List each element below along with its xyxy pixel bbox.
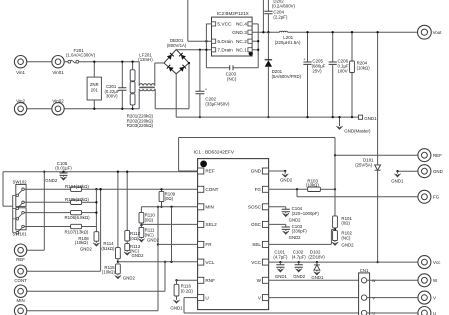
wire ZNR bottom stub xyxy=(93,100,95,109)
wire CN1 V to terminal xyxy=(367,297,418,299)
svg-text:W: W xyxy=(257,278,262,283)
svg-text:Vcc: Vcc xyxy=(433,260,441,265)
switch pole xyxy=(22,188,25,191)
wire switch row2 xyxy=(24,201,70,203)
svg-text:100V: 100V xyxy=(338,68,348,73)
IC1 pin SEL right xyxy=(262,241,268,247)
IC1 BD63242EFV xyxy=(198,159,269,310)
svg-text:Vin02: Vin02 xyxy=(52,99,64,104)
terminal Vin01 xyxy=(52,56,64,68)
svg-text:GND: GND xyxy=(433,169,443,174)
switch SW101 xyxy=(16,208,26,230)
svg-text:FG: FG xyxy=(255,187,262,192)
svg-text:U: U xyxy=(433,311,436,315)
svg-text:MIN: MIN xyxy=(17,298,25,303)
svg-text:NC.1: NC.1 xyxy=(236,48,247,54)
wire U pin route xyxy=(184,297,198,299)
svg-text:ZNR: ZNR xyxy=(90,82,99,87)
resistor R103 10k xyxy=(308,187,321,191)
svg-text:GND2: GND2 xyxy=(280,177,293,182)
node bridge AC2 corner xyxy=(188,62,190,64)
IC2 pin 5.VCC xyxy=(212,22,216,26)
wire Vin1 to Vin01 xyxy=(27,61,52,63)
IC1 pin U xyxy=(198,295,204,301)
wire SEL2 row xyxy=(141,223,197,225)
svg-text:GND2: GND2 xyxy=(45,178,58,183)
svg-text:CONT: CONT xyxy=(14,278,27,283)
resistor R106 6.8k xyxy=(71,210,82,214)
wire MIN-VCL vertical xyxy=(171,207,173,262)
svg-text:Vin01: Vin01 xyxy=(52,70,64,75)
wire REF line left drop xyxy=(2,172,4,207)
ground GND1 below R116 xyxy=(176,296,178,300)
IC1 pin SEL2 xyxy=(198,221,204,227)
wire LF201 bottom-right lead xyxy=(154,89,156,109)
resistor R102 NC xyxy=(333,231,338,241)
wire FG jog down xyxy=(296,189,298,197)
resistor R110 0ohm xyxy=(140,207,142,213)
switch pole xyxy=(22,225,25,228)
capacitor C105 xyxy=(63,172,65,173)
svg-text:GND2: GND2 xyxy=(123,275,136,280)
svg-text:R105(27kΩ): R105(27kΩ) xyxy=(65,197,89,202)
wire VCL row xyxy=(118,261,198,263)
IC1 pin SOSC right xyxy=(262,204,268,210)
terminal Vin1 xyxy=(14,56,26,68)
wire SOSC stub xyxy=(269,206,286,208)
resistor R111 NC xyxy=(140,225,142,227)
wire bridge minus to rail xyxy=(175,74,177,117)
svg-text:IC1 : BD63242EFV: IC1 : BD63242EFV xyxy=(194,150,235,156)
wire GND.3 to rail xyxy=(252,31,279,33)
wire switch row1 xyxy=(24,188,70,190)
node C202 tap on drain line xyxy=(199,49,201,51)
varistor ZNR201 xyxy=(87,77,101,100)
wire FR net upper xyxy=(157,207,159,245)
IC1 pin VCC right xyxy=(262,259,268,265)
svg-text:(800V/1A): (800V/1A) xyxy=(167,43,187,48)
capacitor C102 xyxy=(298,261,300,263)
switch pole xyxy=(22,211,25,214)
IC1 pin FG right xyxy=(262,186,268,192)
wire CONT terminal riser xyxy=(27,270,101,272)
zener D102 ZD18V xyxy=(316,261,318,263)
capacitor C202 33uF/450V xyxy=(199,50,201,92)
ground GND(Master) xyxy=(339,117,341,126)
terminal Vin02 xyxy=(52,103,64,115)
wire R114 chain riser xyxy=(117,172,119,248)
capacitor C101 xyxy=(279,261,281,263)
IC1 pin GND right xyxy=(262,168,268,174)
svg-text:VCC: VCC xyxy=(251,260,261,265)
wire FR terminal riser xyxy=(27,310,158,312)
diode D101 25V/5A xyxy=(375,165,381,170)
svg-text:GND2: GND2 xyxy=(147,237,160,242)
IC1 pin OSC right xyxy=(262,221,268,227)
svg-text:(0.01µF): (0.01µF) xyxy=(55,165,72,170)
svg-text:SEL2: SEL2 xyxy=(205,222,217,227)
svg-text:Vin2: Vin2 xyxy=(16,99,25,104)
svg-text:SOSC: SOSC xyxy=(248,205,262,210)
svg-text:V: V xyxy=(433,295,436,300)
svg-text:(51kΩ): (51kΩ) xyxy=(101,246,115,251)
svg-text:(25V/5A): (25V/5A) xyxy=(355,163,373,168)
ground GND2 below R113 xyxy=(126,251,128,252)
capacitor C204 xyxy=(267,0,269,11)
IC2 pin NC.4 xyxy=(248,22,252,26)
wire REF pin route xyxy=(179,170,198,172)
terminal GND right xyxy=(418,165,431,178)
svg-text:GND2: GND2 xyxy=(289,217,302,222)
svg-text:(330pF): (330pF) xyxy=(292,229,308,234)
svg-text:300V): 300V) xyxy=(106,93,118,98)
connector CN1 xyxy=(359,273,370,315)
svg-text:FG: FG xyxy=(433,195,440,200)
svg-text:(13mH): (13mH) xyxy=(138,57,153,62)
terminal FR left xyxy=(14,305,26,315)
IC1 pin-1 dot xyxy=(200,161,207,168)
wire REF pin line xyxy=(3,171,198,173)
wire 6.Drain feed riser xyxy=(187,0,189,41)
svg-text:GND2: GND2 xyxy=(341,242,354,247)
svg-text:GND1: GND1 xyxy=(275,274,288,279)
wire RNF stub xyxy=(177,279,198,281)
ground GND2 below R102 xyxy=(334,241,336,242)
IC2 pin GND.3 xyxy=(248,30,252,34)
svg-text:6.Drain: 6.Drain xyxy=(217,39,233,45)
wire REF vertical to divider xyxy=(334,138,336,216)
wire Vin2 to Vin02 xyxy=(27,108,52,110)
svg-text:(0.2A/600V): (0.2A/600V) xyxy=(272,4,296,9)
svg-text:(0Ω): (0Ω) xyxy=(145,217,154,222)
svg-text:GND1: GND1 xyxy=(170,306,183,311)
terminal Vcc right xyxy=(418,256,431,269)
wire bridge AC2 riser xyxy=(188,63,190,109)
resistor R107 13k xyxy=(71,224,82,228)
wire switch row4 xyxy=(24,226,70,228)
svg-text:(10kΩ): (10kΩ) xyxy=(306,183,320,188)
IC1 pin VCL xyxy=(198,259,204,265)
svg-text:SW102: SW102 xyxy=(13,180,28,185)
svg-text:(0Ω): (0Ω) xyxy=(165,196,174,201)
IC2 pin 7.Drain xyxy=(212,48,216,52)
IC1 pin W right xyxy=(262,277,268,283)
svg-text:GND(Master): GND(Master) xyxy=(344,128,371,133)
svg-text:SEL: SEL xyxy=(252,242,261,247)
wire LF201 top-right lead xyxy=(154,63,156,86)
wire secondary ground rail xyxy=(176,116,358,118)
IC1 pin RNF xyxy=(198,277,204,283)
svg-text:(10kΩ): (10kΩ) xyxy=(357,66,371,71)
bridge rectifier DB201 xyxy=(164,50,189,74)
svg-text:RNF: RNF xyxy=(205,278,215,283)
terminal U right xyxy=(418,307,431,315)
svg-text:(ZD18V): (ZD18V) xyxy=(308,254,325,259)
svg-text:(5A/600V/FRD): (5A/600V/FRD) xyxy=(272,74,302,79)
diode D202 feed riser xyxy=(262,0,264,32)
svg-text:Vin1: Vin1 xyxy=(16,70,25,75)
resistor R108 10k xyxy=(95,227,97,232)
resistor R109 0ohm xyxy=(161,189,163,191)
svg-text:MIN: MIN xyxy=(205,205,213,210)
wire GND terminal stub xyxy=(398,170,418,172)
resistor R204 10k xyxy=(351,32,353,61)
switch pole xyxy=(22,201,25,204)
wire fuse to LF201 top xyxy=(79,61,140,63)
wire Vin01 to fuse xyxy=(64,61,68,63)
IC2 pin NC.1 xyxy=(248,48,252,52)
wire switch row3 xyxy=(24,212,70,214)
capacitor C104 xyxy=(285,207,287,210)
resistor R116 0.2ohm xyxy=(176,280,178,284)
svg-text:(0Ω): (0Ω) xyxy=(130,236,139,241)
wire LF201 top-left lead xyxy=(138,62,140,86)
svg-text:GND2: GND2 xyxy=(80,247,93,252)
svg-text:(2.2µF): (2.2µF) xyxy=(273,15,288,20)
terminal MIN left xyxy=(14,285,26,297)
svg-text:FR: FR xyxy=(205,242,212,247)
inductor L201 xyxy=(280,31,288,32)
terminal Vin2 xyxy=(14,103,26,115)
wire R112 chain riser xyxy=(126,172,128,231)
switch SW102 xyxy=(16,185,26,207)
svg-text:R203(220kΩ): R203(220kΩ) xyxy=(127,123,154,128)
svg-text:(10kΩ): (10kΩ) xyxy=(102,270,116,275)
capacitor C203 (NC) xyxy=(206,67,229,69)
svg-text:7.Drain: 7.Drain xyxy=(217,48,233,54)
fuse F201 xyxy=(68,60,79,63)
resistor R115 10k xyxy=(116,264,121,274)
svg-text:Vout: Vout xyxy=(433,30,443,35)
svg-text:REF: REF xyxy=(433,153,442,158)
svg-text:(220µH/1.6A): (220µH/1.6A) xyxy=(275,40,301,45)
ground GND2 at GND pin xyxy=(284,171,286,174)
IC1 pin MIN xyxy=(198,204,204,210)
svg-text:GND.3: GND.3 xyxy=(232,30,247,36)
wire CN1 W to terminal xyxy=(367,279,418,281)
svg-text:VCL: VCL xyxy=(205,260,214,265)
wire 5.VCC stub xyxy=(206,23,211,25)
svg-text:GND2: GND2 xyxy=(289,235,302,240)
wire W pin to CN1 xyxy=(269,279,362,281)
capacitor C201 xyxy=(121,62,123,88)
terminal W right xyxy=(418,274,431,287)
ground GND1 at GND terminal xyxy=(397,171,399,173)
IC1 pin FR xyxy=(198,241,204,247)
resistor R105 27k xyxy=(71,200,82,204)
svg-text:GND1: GND1 xyxy=(364,116,377,121)
svg-text:CN1: CN1 xyxy=(360,268,369,273)
svg-text:(NC): (NC) xyxy=(227,76,237,81)
wire Vcc feed riser lower xyxy=(377,170,379,262)
svg-text:U: U xyxy=(205,295,208,300)
resistor R114 51k xyxy=(116,248,121,259)
wire Vcc feed riser xyxy=(377,32,379,165)
wire LF201 to bridge AC1 xyxy=(155,62,164,64)
svg-text:NC.2: NC.2 xyxy=(236,39,247,45)
wire OSC stub xyxy=(269,223,286,225)
svg-text:(NC): (NC) xyxy=(341,235,351,240)
svg-text:(33µF/450V): (33µF/450V) xyxy=(205,102,230,107)
resistor R113 NC xyxy=(126,241,128,244)
svg-text:GND2: GND2 xyxy=(132,253,145,258)
svg-text:SW101: SW101 xyxy=(13,231,28,236)
wire switch common xyxy=(12,195,14,232)
wire 6.Drain horizontal xyxy=(188,40,212,42)
terminal REF left xyxy=(14,244,26,256)
IC2 pin-1 dot xyxy=(249,51,253,55)
svg-text:GND2: GND2 xyxy=(293,274,306,279)
diode D201 5A/600V FRD xyxy=(267,32,269,60)
wire REF line to terminal xyxy=(335,154,418,156)
svg-text:GND1: GND1 xyxy=(391,178,404,183)
IC1 pin V right xyxy=(262,295,268,301)
terminal GND1 tab xyxy=(358,115,362,119)
wire rows join vertical xyxy=(95,189,97,226)
resistor R201 xyxy=(130,70,135,81)
svg-text:R106(6.8kΩ): R106(6.8kΩ) xyxy=(65,215,91,220)
IC2 pin 6.Drain xyxy=(212,39,216,43)
wire Vcc rail to terminal xyxy=(269,261,418,263)
terminal FG right xyxy=(418,190,431,203)
svg-text:(10kΩ): (10kΩ) xyxy=(75,240,89,245)
svg-text:GND1: GND1 xyxy=(311,275,324,280)
wire CN1 U to terminal xyxy=(367,312,418,314)
terminal Vout xyxy=(418,25,432,39)
svg-text:GND: GND xyxy=(251,169,262,174)
capacitor C205 680uF xyxy=(307,32,309,62)
terminal CONT left xyxy=(14,265,26,277)
svg-text:(0.2Ω): (0.2Ω) xyxy=(181,289,194,294)
IC1 pin CONT xyxy=(198,186,204,192)
svg-text:NC.4: NC.4 xyxy=(236,22,247,28)
svg-text:OSC: OSC xyxy=(251,222,262,227)
ground GND2 below R115 xyxy=(117,274,119,276)
resistor R101 0ohm xyxy=(333,216,338,228)
svg-text:201: 201 xyxy=(91,88,99,93)
wire V pin to CN1 xyxy=(269,297,362,299)
wire MIN terminal riser xyxy=(27,290,165,292)
svg-text:(4.7µF): (4.7µF) xyxy=(273,254,288,259)
terminal REF right xyxy=(418,149,431,162)
svg-text:R107(13kΩ): R107(13kΩ) xyxy=(65,230,89,235)
wire MIN pin row xyxy=(141,206,197,208)
wire drain tie vertical xyxy=(205,24,207,68)
terminal V right xyxy=(418,291,431,304)
wire FR pin row xyxy=(158,243,198,245)
resistor R203 xyxy=(130,94,135,105)
wire GND pin stub xyxy=(269,170,286,172)
wire Vin02 to LF201 bottom xyxy=(64,108,139,110)
wire LF201 to bridge AC2 xyxy=(155,108,189,110)
svg-text:(0Ω): (0Ω) xyxy=(341,221,350,226)
wire ZNR top stub xyxy=(93,62,95,77)
svg-text:REF: REF xyxy=(205,169,214,174)
svg-text:(1.0A/AC300V): (1.0A/AC300V) xyxy=(66,52,96,57)
wire REF terminal riser xyxy=(27,249,45,251)
capacitor C206 0.1uF xyxy=(332,32,334,62)
resistor R104 18k xyxy=(71,187,82,191)
wire FG to terminal xyxy=(297,196,418,198)
wire FG pin line xyxy=(269,188,308,190)
wire bridge plus line to 7.Drain xyxy=(176,49,211,51)
svg-text:5.VCC: 5.VCC xyxy=(217,22,232,28)
wire output rail xyxy=(288,31,418,33)
svg-text:25V): 25V) xyxy=(312,68,322,73)
svg-text:IC2:BM2P121X: IC2:BM2P121X xyxy=(217,11,249,16)
wire NC pins bracket xyxy=(257,24,259,68)
ground GND2 below R111 xyxy=(140,237,142,238)
IC2 BM2P121X xyxy=(212,17,253,56)
IC2 pin NC.2 xyxy=(248,39,252,43)
capacitor C103 xyxy=(285,224,287,227)
ground GND2 below R108 xyxy=(95,241,97,243)
svg-text:(4.7µF): (4.7µF) xyxy=(292,254,307,259)
wire LF201 bottom-left lead xyxy=(138,89,140,109)
svg-text:CONT: CONT xyxy=(205,187,218,192)
svg-text:REF: REF xyxy=(16,257,25,262)
wire SEL to divider xyxy=(269,243,332,245)
resistor R112 0ohm xyxy=(125,231,130,241)
svg-text:R104(18kΩ): R104(18kΩ) xyxy=(65,184,89,189)
resistor R202 xyxy=(130,82,135,93)
IC1 pin REF xyxy=(198,168,204,174)
svg-text:(220~1000pF): (220~1000pF) xyxy=(292,211,320,216)
